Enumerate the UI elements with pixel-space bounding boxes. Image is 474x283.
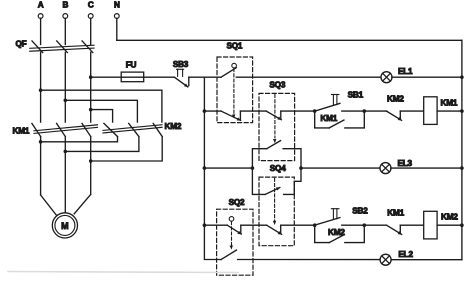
svg-text:B: B	[62, 0, 68, 9]
svg-text:KM2: KM2	[441, 213, 458, 222]
svg-text:SB3: SB3	[173, 60, 189, 69]
svg-text:N: N	[114, 0, 120, 9]
svg-text:SB2: SB2	[352, 207, 368, 216]
svg-text:M: M	[61, 221, 69, 231]
svg-text:KM2: KM2	[165, 122, 182, 131]
svg-text:SB1: SB1	[348, 91, 364, 100]
svg-text:KM1: KM1	[320, 114, 337, 123]
svg-text:EL3: EL3	[398, 159, 413, 168]
svg-text:KM1: KM1	[441, 98, 458, 107]
svg-text:SQ3: SQ3	[269, 80, 285, 89]
svg-text:EL2: EL2	[398, 250, 413, 259]
svg-text:A: A	[38, 0, 44, 9]
svg-text:EL1: EL1	[398, 67, 413, 76]
svg-text:SQ2: SQ2	[229, 198, 245, 207]
svg-text:KM1: KM1	[13, 126, 30, 135]
svg-text:C: C	[88, 0, 94, 9]
svg-text:KM2: KM2	[387, 95, 404, 104]
svg-text:SQ1: SQ1	[227, 42, 243, 51]
svg-text:FU: FU	[126, 60, 137, 69]
svg-text:SQ4: SQ4	[270, 164, 286, 173]
svg-text:QF: QF	[16, 39, 27, 48]
svg-text:KM1: KM1	[387, 209, 404, 218]
